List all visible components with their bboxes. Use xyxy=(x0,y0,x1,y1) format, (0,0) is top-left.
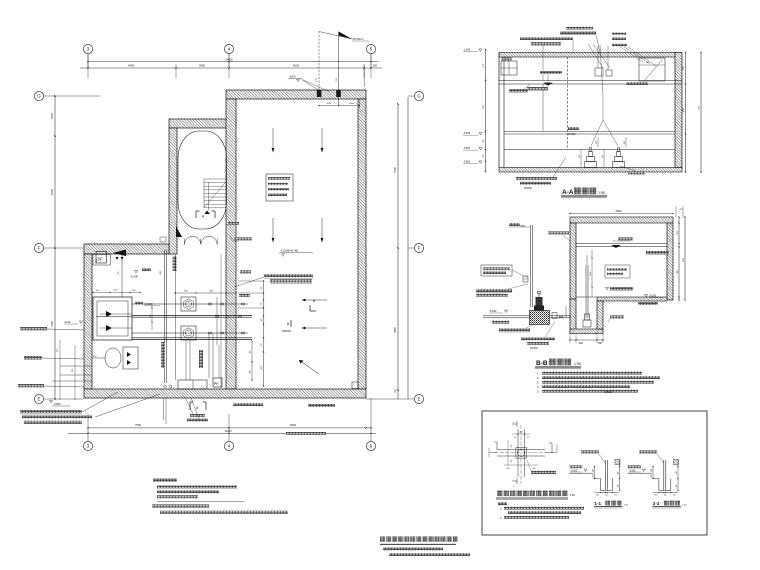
B-B suction pipe xyxy=(483,306,571,319)
svg-text:100: 100 xyxy=(593,469,595,472)
sump side dim xyxy=(150,303,153,330)
detail 1-1 dims xyxy=(593,460,621,497)
B-B pit riser and strainer xyxy=(583,255,591,327)
detail 1-1 footing xyxy=(593,460,620,491)
A-A pump 1 xyxy=(585,148,597,168)
plan right dimension lines xyxy=(393,97,408,399)
flow arrow v1 xyxy=(272,128,275,153)
svg-text:-5.100(H=2.40): -5.100(H=2.40) xyxy=(280,249,298,253)
A-A top slab xyxy=(499,53,676,58)
B-B boxed label xyxy=(481,265,528,278)
svg-text:250: 250 xyxy=(532,468,535,470)
B-B right dim chain xyxy=(677,216,686,300)
detail box frame xyxy=(482,411,707,535)
svg-text:550: 550 xyxy=(261,344,263,347)
svg-text:-5.000: -5.000 xyxy=(64,322,71,324)
detail 1-1 leader label xyxy=(581,451,606,464)
svg-text:-025203: -025203 xyxy=(604,392,613,394)
svg-text:-5.000: -5.000 xyxy=(629,469,636,472)
svg-text:1200: 1200 xyxy=(677,231,679,235)
svg-text:250: 250 xyxy=(506,468,509,470)
svg-text:F: F xyxy=(38,246,41,251)
A-A right wall xyxy=(675,53,682,168)
B-B low water level label xyxy=(605,287,633,291)
leader label DN100 xyxy=(18,384,84,387)
room level label xyxy=(279,249,313,257)
detail 1-1 title xyxy=(594,501,629,508)
B-B top slab xyxy=(570,217,673,223)
svg-text:-5.100: -5.100 xyxy=(649,295,657,298)
svg-text:A-A: A-A xyxy=(562,189,574,196)
svg-text:2.: 2. xyxy=(500,517,502,520)
A-A left levels xyxy=(463,49,482,164)
svg-text:G: G xyxy=(37,94,41,99)
B-B level label xyxy=(489,309,508,313)
svg-text:-5.000: -5.000 xyxy=(130,275,138,279)
svg-text:450: 450 xyxy=(651,475,653,478)
sheet note lines xyxy=(383,548,470,557)
plan left dimension line xyxy=(50,95,56,400)
pump room level label xyxy=(130,268,151,279)
detail 1-1 floor line and level xyxy=(569,466,593,474)
svg-text:150: 150 xyxy=(316,78,318,81)
pipe riser pair xyxy=(164,250,222,424)
B-B tank text box xyxy=(605,265,630,278)
A-A top leader labels xyxy=(520,27,656,146)
foundation notes xyxy=(498,502,584,520)
svg-text:1:50: 1:50 xyxy=(574,362,581,366)
grid bubble E left xyxy=(34,394,84,403)
dims inside main room xyxy=(318,99,360,109)
svg-text:4400: 4400 xyxy=(128,64,134,68)
detail 2-2 pipe xyxy=(664,460,666,490)
ladder label xyxy=(230,236,252,241)
svg-text:1000: 1000 xyxy=(326,103,332,105)
svg-text:05T5113-4: 05T5113-4 xyxy=(353,39,365,41)
B-B vent riser xyxy=(509,223,533,307)
svg-text:14400: 14400 xyxy=(224,429,232,433)
grid bubble G right xyxy=(408,91,424,100)
floor drain PF xyxy=(213,378,222,387)
flow arrow v2 xyxy=(321,128,324,153)
plan bottom dimension line xyxy=(68,423,376,434)
svg-text:200: 200 xyxy=(261,287,263,290)
svg-text:100: 100 xyxy=(664,494,667,496)
B-B pump label xyxy=(492,321,509,324)
svg-text:0.000: 0.000 xyxy=(54,402,61,406)
svg-text:2400: 2400 xyxy=(160,271,162,275)
detail 2-2 title xyxy=(652,501,687,508)
svg-text:200: 200 xyxy=(118,272,120,275)
svg-text:200: 200 xyxy=(373,65,378,68)
grid bubble G left xyxy=(34,91,100,100)
svg-text:250: 250 xyxy=(673,494,676,496)
section cut A upper xyxy=(196,211,215,219)
A-A bottom slab xyxy=(499,168,682,173)
svg-text:6100: 6100 xyxy=(50,189,54,195)
B-B tank inner dim xyxy=(590,250,593,297)
main room dim chain xyxy=(238,280,264,386)
detail 2-2 footing xyxy=(652,460,679,491)
svg-text:PF: PF xyxy=(214,382,220,386)
svg-text:500: 500 xyxy=(618,472,620,475)
section cut A lower xyxy=(190,402,206,410)
svg-text:300: 300 xyxy=(618,485,620,488)
A-A riser pipe xyxy=(568,57,580,150)
svg-text:-5.680: -5.680 xyxy=(463,147,471,150)
svg-text:700: 700 xyxy=(261,303,263,306)
fan box SF xyxy=(93,252,110,266)
svg-text:3.: 3. xyxy=(537,380,539,384)
svg-text:400: 400 xyxy=(261,319,263,322)
B-B pit right wall xyxy=(597,301,603,329)
discharge pipe lower xyxy=(132,332,248,335)
A-A bottom labels xyxy=(516,157,645,190)
svg-text:-5.000: -5.000 xyxy=(570,469,577,472)
B-B suction pit label xyxy=(608,316,624,323)
plan bottom annotations xyxy=(93,356,335,435)
svg-text:~5400: ~5400 xyxy=(614,210,622,213)
suction header pipe xyxy=(96,315,252,318)
B-B right wall xyxy=(667,223,673,300)
svg-text:5.: 5. xyxy=(537,389,539,393)
svg-text:100: 100 xyxy=(651,469,653,472)
A-A float valve box xyxy=(501,58,517,75)
hydrant pump foundation plan detail xyxy=(489,421,557,488)
B-B floor label right xyxy=(638,302,658,305)
svg-text:3450: 3450 xyxy=(261,366,263,370)
svg-text:6000: 6000 xyxy=(293,64,299,68)
B-B pit dims xyxy=(569,331,603,345)
svg-text:DN150: DN150 xyxy=(524,187,532,190)
svg-text:600: 600 xyxy=(624,141,626,144)
A-A left dim chain xyxy=(483,49,486,172)
svg-text:3450: 3450 xyxy=(590,272,592,276)
svg-text:G: G xyxy=(417,94,421,99)
B-B pit floor xyxy=(570,329,603,334)
leader label DN50 xyxy=(24,356,84,359)
vertical pipe labels xyxy=(161,342,203,368)
A-A manhole box xyxy=(626,58,665,85)
svg-text:150: 150 xyxy=(336,78,338,81)
grid bubble 4 top xyxy=(224,44,233,68)
svg-text:2.: 2. xyxy=(537,376,539,380)
wall tank room left xyxy=(169,128,177,254)
plan top dimension line xyxy=(80,54,382,78)
A-A water line xyxy=(504,132,675,135)
svg-text:800: 800 xyxy=(579,342,584,345)
sump pit xyxy=(93,297,132,340)
svg-text:450: 450 xyxy=(602,155,604,158)
B-B notes xyxy=(537,371,660,394)
equipment pad xyxy=(178,380,207,389)
svg-text:1:50: 1:50 xyxy=(598,191,605,195)
detail 2-2 floor line and level xyxy=(627,466,651,474)
svg-text:E: E xyxy=(418,397,421,402)
left wall level label xyxy=(64,321,83,324)
wall tank room top xyxy=(169,119,236,128)
svg-text:7500: 7500 xyxy=(135,423,141,427)
svg-text:300: 300 xyxy=(250,351,252,354)
pump P2 xyxy=(181,326,196,340)
plan misc dims left xyxy=(92,259,162,293)
wall pump room left xyxy=(84,254,92,389)
svg-text:550: 550 xyxy=(598,342,603,345)
B-B inlet label xyxy=(611,238,633,249)
B-B control cabinet label xyxy=(476,284,528,297)
A-A mid devices xyxy=(595,46,612,76)
svg-text:125: 125 xyxy=(511,445,513,448)
bottom leader notes xyxy=(20,392,160,424)
wall divider xyxy=(226,99,236,389)
svg-text:900: 900 xyxy=(646,62,649,64)
grid bubble 3 bottom xyxy=(83,414,92,451)
grid bubble F left xyxy=(34,243,84,252)
pump outlet pipes down xyxy=(186,333,219,380)
svg-text:-5.180: -5.180 xyxy=(489,309,497,313)
wall main room top xyxy=(226,90,366,99)
A-A pump 2 xyxy=(613,148,625,168)
dim row above pumps xyxy=(174,290,250,297)
svg-text:4.: 4. xyxy=(537,385,539,389)
B-B bell mouth labels xyxy=(521,322,555,350)
svg-text:125: 125 xyxy=(511,460,513,463)
svg-text:800: 800 xyxy=(250,371,252,374)
svg-text:F: F xyxy=(418,246,421,251)
flow arrow h2 xyxy=(302,327,328,330)
svg-text:50: 50 xyxy=(527,437,529,439)
door arrow pump room xyxy=(113,250,126,261)
svg-text:B-B: B-B xyxy=(536,360,548,367)
flow arrow v4 xyxy=(321,218,324,243)
wall main room right xyxy=(358,99,366,389)
svg-text:-1.040: -1.040 xyxy=(463,49,471,52)
B-B top dim xyxy=(569,206,683,218)
wall pump room top xyxy=(84,244,169,254)
svg-text:700: 700 xyxy=(150,315,152,318)
detail 2-2 leader label xyxy=(639,451,664,464)
notes block bottom left xyxy=(152,479,288,514)
B-B PE sleeve label xyxy=(548,232,570,242)
stair xyxy=(204,179,227,214)
A-A beam line xyxy=(499,81,682,85)
svg-text:2800: 2800 xyxy=(199,64,205,68)
riser leader top right xyxy=(288,32,369,106)
svg-text:500: 500 xyxy=(676,472,678,475)
grid bubble 4 bottom xyxy=(224,414,233,451)
svg-text:7400: 7400 xyxy=(96,259,98,263)
B-B left wall xyxy=(570,223,576,299)
A-A lowest waterline label xyxy=(540,71,562,86)
svg-text:-6.080: -6.080 xyxy=(463,161,471,164)
svg-text:250: 250 xyxy=(680,209,683,211)
B-B foundation leader label xyxy=(499,324,534,332)
section cut B marks xyxy=(282,299,316,331)
svg-text:250: 250 xyxy=(596,494,599,496)
B-B overflow label xyxy=(646,251,669,255)
svg-text:DN100: DN100 xyxy=(568,133,576,136)
svg-text:1.: 1. xyxy=(537,371,539,375)
svg-text:-6.300: -6.300 xyxy=(144,302,152,306)
grid bubble 5 bottom xyxy=(366,398,375,451)
svg-text:1600: 1600 xyxy=(50,113,54,119)
svg-text:250: 250 xyxy=(614,494,617,496)
detail 1-1 pipe xyxy=(605,460,607,490)
flow arrow diag xyxy=(299,360,319,374)
svg-text:6000: 6000 xyxy=(290,423,296,427)
corner notch xyxy=(352,382,358,389)
svg-text:3450: 3450 xyxy=(393,327,397,333)
B-B pump motor xyxy=(534,292,544,311)
B-B floor level right xyxy=(644,294,662,297)
B-B tank floor xyxy=(597,297,667,301)
svg-text:7300: 7300 xyxy=(520,225,526,228)
A-A right dim chain xyxy=(683,52,702,173)
svg-text:1.: 1. xyxy=(500,507,502,510)
grid bubble F right xyxy=(408,243,424,252)
grid bubble 3 top xyxy=(83,44,92,68)
level pm0000 xyxy=(49,400,70,406)
svg-text:1:50: 1:50 xyxy=(570,494,575,497)
svg-text:E: E xyxy=(38,397,41,402)
B-B beam line xyxy=(576,244,667,247)
feed pipe vertical xyxy=(121,250,123,297)
svg-text:2-2: 2-2 xyxy=(653,501,660,506)
leader label DN25 xyxy=(20,327,84,330)
svg-text:450: 450 xyxy=(579,155,581,158)
wall plan bottom xyxy=(84,389,366,398)
detail 2-2 dims xyxy=(651,460,679,497)
svg-text:3800: 3800 xyxy=(677,270,679,274)
room info box xyxy=(266,174,293,201)
discharge header pipe xyxy=(132,338,252,340)
B-B pump foundation xyxy=(530,311,550,325)
water tank outline xyxy=(178,131,227,229)
suction pipe upper xyxy=(132,303,248,306)
grid bubble E right xyxy=(366,394,424,403)
svg-text:1-1: 1-1 xyxy=(594,501,601,506)
pump P1 xyxy=(181,297,196,311)
svg-text:50: 50 xyxy=(514,437,516,439)
B-B pit left wall xyxy=(570,299,576,333)
A-A left wall xyxy=(499,53,504,168)
tank wall vertical label xyxy=(173,256,177,271)
flow arrow h1 xyxy=(302,299,328,302)
svg-text:300: 300 xyxy=(676,485,678,488)
svg-text:100: 100 xyxy=(605,494,608,496)
svg-text:4300: 4300 xyxy=(683,258,685,262)
flow arrow v3 xyxy=(272,218,275,243)
svg-text:SF: SF xyxy=(97,257,103,262)
foundation plan title xyxy=(496,491,575,500)
svg-text:7500: 7500 xyxy=(393,167,397,173)
sump level label xyxy=(135,302,160,306)
tank room side label xyxy=(226,222,239,226)
A-A pump dims xyxy=(579,137,626,167)
svg-text:-5/00: -5/00 xyxy=(289,75,296,79)
svg-text:1000: 1000 xyxy=(349,103,355,105)
grid bubble 5 top xyxy=(366,44,375,68)
A-A pipe labels xyxy=(509,85,548,93)
room note text xyxy=(234,271,313,288)
B-B title xyxy=(535,359,581,369)
svg-text:DN150: DN150 xyxy=(530,347,538,350)
svg-text:600: 600 xyxy=(596,141,598,144)
svg-text:250: 250 xyxy=(654,494,657,496)
door arc tank room xyxy=(160,226,217,245)
A-A title xyxy=(561,188,607,198)
sheet title xyxy=(380,537,458,545)
drain pump ellipse xyxy=(92,347,138,369)
pipe stubs through left wall xyxy=(52,340,92,400)
A-A second riser xyxy=(542,84,544,131)
A-A floor line xyxy=(504,149,675,151)
svg-text:14400: 14400 xyxy=(225,57,233,61)
svg-text:-5.180: -5.180 xyxy=(463,132,471,135)
svg-text:7500: 7500 xyxy=(50,321,54,327)
svg-text:450: 450 xyxy=(593,475,595,478)
